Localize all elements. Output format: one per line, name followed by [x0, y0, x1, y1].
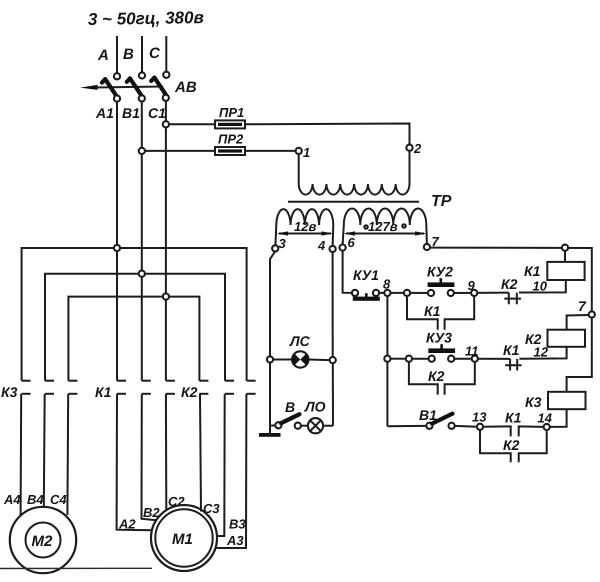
svg-text:С: С: [149, 45, 161, 62]
wire K1 pole A2 to motor M1: [117, 394, 153, 531]
junction phase A on bracket 1: [114, 245, 120, 251]
node 11: [472, 356, 478, 362]
node 2: [406, 145, 412, 151]
svg-text:К2: К2: [503, 437, 520, 453]
wire node 8 to branch node: [390, 292, 404, 294]
relay coil K2: [548, 330, 586, 347]
svg-text:М2: М2: [32, 533, 53, 550]
transformer TP core: [288, 201, 419, 203]
wire row 3 from node-8 column: [387, 425, 426, 427]
switch AB pole 1 blade: [105, 79, 116, 96]
svg-text:К1: К1: [95, 384, 112, 400]
wire K2 pole C3 to motor M1: [200, 394, 201, 512]
branch node at KU3: [406, 356, 412, 362]
wire terminal 3 column down: [270, 251, 275, 356]
relay coil K3: [548, 392, 586, 409]
svg-text:ТР: ТР: [431, 193, 452, 210]
svg-text:7: 7: [578, 298, 587, 314]
svg-text:К1: К1: [424, 303, 441, 319]
wire K2 pole B3 to motor M1: [217, 394, 225, 536]
node 1: [296, 148, 302, 154]
transformer TP primary winding: [298, 154, 300, 184]
svg-text:В3: В3: [229, 517, 246, 532]
switch AB pole 3 top contact: [163, 72, 169, 78]
wire phase B feed: [141, 36, 143, 73]
svg-text:10: 10: [533, 279, 548, 294]
svg-text:3 ~ 50гц, 380в: 3 ~ 50гц, 380в: [88, 8, 204, 29]
node 13: [477, 424, 483, 430]
svg-text:А2: А2: [118, 517, 136, 532]
svg-text:К1: К1: [503, 342, 520, 358]
auxiliary contact K1 (hold) around KU2: [407, 296, 438, 330]
terminal 4: [330, 246, 336, 252]
motor M1: [151, 505, 217, 571]
voltage arrow 127v: [346, 233, 424, 235]
switch AB pole 1 top contact: [114, 73, 120, 79]
motor M2: [10, 507, 76, 573]
node 14: [544, 424, 550, 430]
wire K3 pole C4 to motor M2: [66, 394, 69, 515]
wire phase B1 column: [141, 101, 143, 380]
wire phase C feed: [165, 36, 167, 72]
svg-text:ПР2: ПР2: [218, 132, 244, 147]
svg-text:ПР1: ПР1: [219, 105, 244, 120]
wire fuse PR2 to node 1: [245, 150, 296, 152]
wire bracket 3: [68, 297, 199, 381]
wire K3 pole B4 to motor M2: [43, 394, 46, 507]
node on C1 for fuse PR1: [163, 121, 169, 127]
switch AB pole 2 bottom contact: [139, 95, 145, 101]
wire node 9 to K2 break contact: [477, 292, 509, 294]
svg-text:6: 6: [348, 235, 356, 250]
svg-text:А3: А3: [226, 533, 244, 548]
svg-text:2: 2: [413, 141, 422, 156]
wire K1 pole B2 to motor M1: [142, 394, 157, 521]
svg-text:КУ1: КУ1: [353, 267, 379, 283]
transformer TP secondary winding 127v: [344, 209, 427, 226]
svg-text:А: А: [97, 47, 109, 64]
wire K1 pole C2 to motor M1: [165, 394, 167, 510]
junction phase C on bracket 3: [163, 294, 169, 300]
svg-text:127в: 127в: [368, 219, 398, 234]
wire node 11 to K1 break contact: [478, 358, 510, 360]
chassis ground: [259, 433, 281, 437]
switch AB pole 2 top contact: [139, 72, 145, 78]
switch AB pole 2 blade: [130, 78, 141, 95]
relay coil K1: [547, 262, 584, 280]
wire bracket 1 (contactor K3/K2 outer feed): [22, 248, 247, 381]
wire K3 coil to row 3: [550, 409, 567, 427]
svg-text:9: 9: [468, 278, 476, 293]
svg-text:11: 11: [465, 344, 479, 359]
svg-text:К2: К2: [181, 384, 198, 400]
wire row2 junction to branch node: [390, 358, 406, 360]
switch AB pole 1 bottom contact: [114, 96, 120, 102]
node on B1 for fuse PR2: [139, 148, 145, 154]
wire phase A feed: [116, 36, 118, 73]
svg-text:ЛО: ЛО: [304, 399, 326, 415]
svg-text:К2: К2: [428, 368, 445, 384]
transformer TP secondary winding 12v: [276, 209, 333, 225]
svg-text:А4: А4: [3, 492, 21, 507]
svg-text:В1: В1: [122, 105, 140, 121]
junction node LS left: [267, 356, 273, 362]
svg-text:К2: К2: [501, 276, 518, 292]
auxiliary contact K2 below row 3: [480, 430, 511, 463]
branch node at KU2: [404, 290, 410, 296]
svg-text:К3: К3: [1, 384, 18, 400]
svg-text:13: 13: [472, 410, 487, 425]
svg-text:АВ: АВ: [174, 79, 197, 96]
wire bracket 2: [45, 274, 225, 381]
svg-text:12в: 12в: [294, 219, 316, 234]
wire node 8 column down: [386, 296, 388, 356]
svg-text:В4: В4: [27, 492, 44, 507]
scan artifact line bottom: [0, 567, 152, 569]
wire B1 to node 13: [455, 425, 477, 428]
wire fuse PR1 to node 2: [245, 124, 410, 145]
svg-text:1: 1: [303, 145, 310, 160]
junction phase B on bracket 2: [139, 271, 145, 277]
wire B1 to fuse PR2: [145, 150, 215, 152]
fuse PR2: [215, 147, 245, 155]
junction node LS right: [330, 357, 336, 363]
svg-text:14: 14: [538, 411, 553, 426]
switch AB pole 3 bottom contact: [163, 95, 169, 101]
svg-text:4: 4: [317, 238, 326, 253]
svg-text:С1: С1: [148, 105, 166, 121]
wire rail 7 top: [430, 248, 592, 392]
wire rail to K2 coil: [567, 315, 589, 330]
auxiliary contact K2 (hold) around KU3: [409, 362, 438, 395]
node 7 on right rail: [589, 311, 595, 317]
terminal 3: [272, 245, 278, 251]
wire KU1 to node 8: [379, 292, 384, 294]
svg-text:М1: М1: [172, 531, 193, 548]
wire phase C1 column: [165, 101, 167, 381]
switch AB pole 3 blade: [154, 78, 165, 95]
node 9: [471, 290, 477, 296]
wire phase A1 column: [116, 102, 118, 381]
wire rail junction to K1 coil: [564, 251, 566, 262]
wire K1 coil to row 1: [519, 280, 566, 293]
switch AB mechanical link with arrow: [95, 87, 163, 88]
wire C1 to fuse PR1: [169, 123, 215, 125]
svg-text:3: 3: [279, 236, 287, 251]
svg-text:К1: К1: [505, 410, 522, 426]
terminal 6: [340, 245, 346, 251]
svg-text:К3: К3: [525, 394, 542, 410]
node on rail 7 at K1 coil: [562, 245, 568, 251]
svg-text:С4: С4: [50, 492, 67, 507]
svg-text:А1: А1: [95, 105, 114, 121]
svg-text:В: В: [285, 399, 295, 415]
svg-text:В: В: [123, 46, 134, 63]
svg-text:8: 8: [383, 277, 391, 292]
svg-text:ЛС: ЛС: [289, 333, 311, 349]
fuse PR1: [215, 120, 245, 128]
wire terminal 6 down to row 1: [343, 251, 352, 293]
svg-text:КУ2: КУ2: [427, 264, 453, 280]
wire K2 pole A3 to motor M1: [216, 394, 247, 548]
wire K2 coil to row 2: [519, 347, 566, 359]
terminal 7: [424, 244, 430, 250]
voltage arrow 12v: [279, 233, 331, 235]
junction node row 2: [384, 356, 390, 362]
svg-text:12: 12: [534, 345, 549, 360]
node 8: [384, 290, 390, 296]
wire terminal 4 column: [332, 252, 334, 357]
svg-text:КУ3: КУ3: [426, 330, 452, 346]
svg-text:К1: К1: [524, 263, 541, 279]
wire K3 pole A4 to motor M2: [20, 394, 23, 515]
